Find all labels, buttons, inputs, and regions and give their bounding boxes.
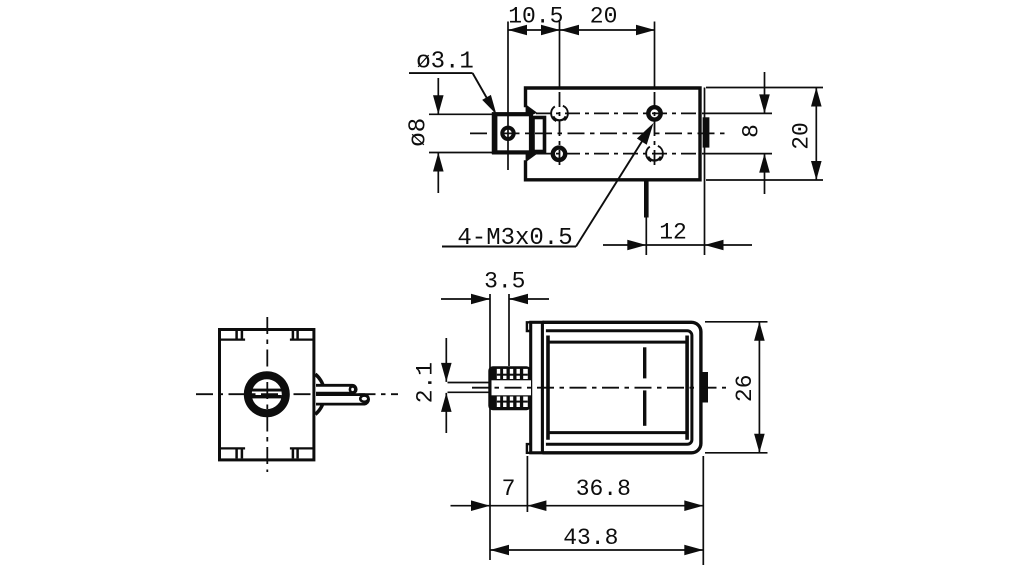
svg-text:3.5: 3.5: [484, 268, 525, 294]
dimension 2.1 lines: [445, 338, 447, 382]
clevis left edge thick bar: [492, 112, 498, 154]
center bushing ring: [248, 375, 286, 413]
callout 4-M3x0.5 leader: [442, 246, 576, 248]
extension line hole column left above body: [559, 22, 561, 89]
plate top ear: [527, 322, 531, 331]
plunger nut rectangle in notch: [533, 118, 545, 152]
plunger clevis rectangle: [494, 114, 531, 152]
dimension line 26: [758, 322, 760, 453]
notch tab upper (filled triangle): [526, 104, 538, 118]
arrow left of 20: [560, 25, 579, 36]
ø8 dimension line + arrows: [437, 78, 439, 114]
corner tick marks: [235, 331, 238, 340]
coil window bottom: [548, 431, 687, 434]
tapped hole M3 lower-right (thin circle with gaps + thread arc): [646, 145, 663, 162]
svg-text:4-M3x0.5: 4-M3x0.5: [457, 225, 572, 252]
fork prong upper (side silhouette): [316, 385, 356, 393]
side view right stop tab: [703, 372, 709, 403]
side view horizontal centerline: [472, 387, 726, 389]
terminal pin below body: [644, 181, 649, 218]
fork prong lower (side silhouette): [316, 395, 369, 405]
svg-text:36.8: 36.8: [576, 476, 631, 502]
svg-text:20: 20: [590, 3, 618, 29]
ø8 extension line bottom: [429, 152, 497, 154]
end view outer rectangle: [220, 330, 314, 460]
dimension 8 extension lines right: [702, 112, 772, 114]
svg-text:43.8: 43.8: [563, 525, 618, 551]
arrow right of 20: [636, 25, 655, 36]
extension line through clevis hole (10.5 dim left): [507, 22, 509, 171]
plunger rod body (grooved): [488, 366, 531, 410]
rod groove white slots bottom row: [497, 397, 500, 408]
dimension line 20 right: [815, 88, 817, 181]
svg-text:20: 20: [789, 122, 815, 150]
svg-text:2.1: 2.1: [412, 362, 438, 403]
end view vertical centerline: [266, 317, 268, 472]
dimension 3.5 extension lines: [489, 294, 491, 560]
notch tab lower (filled triangle): [526, 149, 538, 163]
mounting plate: [531, 322, 543, 453]
dimension line 10.5 / 20 (top): [508, 29, 655, 31]
fork prong edge lines (left of rod): [448, 382, 490, 384]
svg-text:ø3.1: ø3.1: [416, 49, 474, 76]
dimension line 8: [764, 72, 766, 113]
svg-text:12: 12: [659, 219, 687, 245]
rod middle slot band: [492, 380, 532, 395]
corner shelf lines: [221, 339, 245, 341]
dimension 7 / 36.8 extension lines: [526, 456, 528, 512]
bobbin flange right: [685, 336, 689, 440]
plunger slot bars: [252, 389, 282, 392]
center mark segments: [643, 347, 646, 378]
clevis hole ø3.1 ring: [502, 128, 513, 139]
svg-text:8: 8: [739, 124, 765, 138]
through hole lower-left (solid ring): [553, 148, 565, 160]
rod groove crossbars: [497, 374, 528, 376]
through hole upper-right (solid ring): [648, 107, 660, 119]
svg-text:10.5: 10.5: [508, 3, 563, 29]
dimension line 43.8: [490, 549, 703, 551]
svg-text:26: 26: [732, 374, 758, 402]
tapped hole M3 upper-left (thin circle with gaps + thread arc): [551, 105, 568, 122]
case outer shell: [542, 322, 701, 453]
fork prong lower tip ellipse: [360, 396, 368, 402]
dimension 12 extension line right: [704, 88, 706, 256]
case inner wall: [546, 331, 692, 445]
arrow left of 10.5: [508, 25, 527, 36]
main horizontal centerline (top view): [470, 132, 726, 134]
terminal extension line: [645, 218, 647, 256]
dimension 20 extension lines right: [706, 87, 823, 89]
bobbin flange left: [546, 336, 550, 440]
hole column centerline right: [654, 92, 656, 170]
dimension 26 extension lines: [705, 321, 768, 323]
ø8 extension line top: [429, 113, 497, 115]
solenoid body outline (top view, with left notch): [526, 88, 701, 180]
hidden hole row line lower: [536, 153, 697, 155]
coil window top: [548, 341, 687, 344]
svg-text:7: 7: [502, 476, 516, 502]
extension line hole column right above body: [654, 22, 656, 89]
dimension line 12: [603, 244, 752, 246]
rod groove white slots top row: [497, 369, 500, 379]
body right stop tab (filled): [703, 117, 710, 147]
plate bottom ear: [527, 444, 531, 453]
svg-text:ø8: ø8: [406, 118, 433, 147]
callout ø3.1 leader: [409, 72, 473, 74]
dimension line 7 / 36.8: [451, 505, 704, 507]
hidden hole row line upper: [536, 112, 697, 114]
arrow right of 10.5: [541, 25, 560, 36]
dimension line 3.5: [441, 298, 490, 300]
hole column centerline left: [559, 92, 561, 170]
plunger bell arc: [315, 374, 324, 414]
fork prong upper tip ellipse: [350, 386, 355, 392]
end view horizontal centerline: [196, 393, 398, 395]
